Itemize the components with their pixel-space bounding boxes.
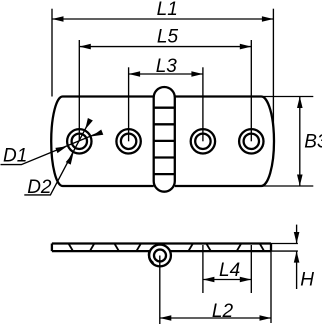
section mark 4 — [136, 244, 141, 252]
dimension L2 arrow left — [160, 315, 172, 321]
dimension L4 line — [203, 279, 251, 281]
hole 2 inner circle — [121, 134, 136, 149]
dimension L3 arrow left — [129, 71, 141, 77]
hole 3 outer circle — [191, 129, 215, 153]
dimension L4 extension line right — [250, 245, 252, 293]
dimension L1 arrow left — [52, 16, 64, 22]
side view leaf bottom edge left — [52, 250, 150, 252]
hinge leaf right plate outline (plan view) — [175, 97, 274, 187]
svg-text:D1: D1 — [3, 146, 27, 167]
section mark 3 — [114, 244, 119, 252]
knuckle division line 4 — [154, 156, 175, 158]
dimension L1 arrow right — [262, 16, 274, 22]
hole 2 outer circle — [116, 129, 140, 153]
hole 4 outer circle — [239, 129, 263, 153]
dimension L1 extension line left — [51, 9, 53, 97]
hole 3 inner circle — [195, 134, 210, 149]
section mark 7 — [237, 244, 242, 252]
svg-text:L5: L5 — [157, 27, 179, 48]
dimension L3 line — [129, 73, 203, 75]
svg-text:L1: L1 — [157, 0, 178, 20]
svg-text:L3: L3 — [156, 56, 178, 77]
barrel pin hole circle (side view) — [154, 250, 166, 262]
section mark 8 — [260, 244, 264, 252]
dimension L2 line — [160, 317, 271, 319]
dimension B3 extension line top — [262, 96, 314, 98]
dimension B3 line — [299, 97, 301, 187]
knuckle division line 3 — [154, 140, 175, 142]
dimension L2 extension line right — [270, 251, 272, 323]
side view leaf top edge — [52, 242, 271, 244]
leader D2 underline — [24, 121, 89, 195]
dimension L4 extension line left — [202, 245, 204, 293]
dimension H arrow top — [294, 232, 300, 244]
hinge knuckle capsule (plan view) — [154, 87, 175, 192]
dimension L1 line — [52, 18, 273, 20]
hinge leaf left plate outline (plan view) — [51, 97, 154, 187]
dimension B3 extension line bottom — [262, 185, 314, 187]
svg-text:L2: L2 — [212, 301, 234, 322]
dimension L1 extension line right — [272, 9, 274, 130]
dimension L5 arrow right — [240, 44, 252, 50]
dimension L4 arrow right — [240, 277, 252, 283]
svg-text:B3: B3 — [304, 132, 322, 153]
dimension H arrow bottom — [294, 251, 300, 263]
svg-text:D2: D2 — [27, 177, 52, 198]
section mark 2 — [90, 244, 94, 252]
dimension L5 extension line right — [250, 40, 252, 141]
svg-text:L4: L4 — [219, 260, 240, 281]
dimension L4 arrow left — [203, 277, 215, 283]
dimension B3 arrow top — [297, 97, 303, 109]
hole 1 inner circle — [72, 134, 87, 149]
dimension L5 extension line left — [78, 40, 80, 141]
leader D1 underline — [1, 132, 101, 164]
barrel curl arc (side view) — [149, 251, 153, 263]
dimension L3 extension line right — [202, 67, 204, 141]
dimension L5 line — [79, 46, 251, 48]
knuckle division line 1 — [154, 107, 175, 109]
hole 1 countersink outer circle — [67, 129, 91, 153]
dimension L3 arrow right — [191, 71, 203, 77]
dimension H extension line bottom — [271, 250, 298, 252]
side view leaf right end cap — [270, 244, 272, 252]
section mark 5 — [188, 244, 193, 252]
section mark 6 — [206, 244, 211, 252]
dimension H extension line top — [271, 243, 298, 245]
svg-text:H: H — [300, 269, 314, 290]
dimension H upper line — [296, 225, 298, 244]
leader D2 arrow lower-left on hole 1 — [66, 152, 76, 165]
side view leaf bottom edge right — [170, 250, 271, 252]
section mark 1 — [69, 244, 74, 252]
dimension B3 arrow bottom — [297, 175, 303, 187]
knuckle division line 5 — [154, 173, 175, 175]
hole 4 inner circle — [244, 134, 259, 149]
dimension L3 extension line left — [128, 67, 130, 141]
dimension L2 extension line left (barrel centre line) — [159, 256, 161, 325]
leader D1 arrow upper-right on hole 1 — [91, 130, 104, 139]
dimension H lower line — [296, 251, 298, 289]
dimension L2 arrow right — [260, 315, 272, 321]
dimension L5 arrow left — [79, 44, 91, 50]
leader D1 arrow lower-left on hole 1 — [55, 144, 68, 153]
barrel outer circle (side view) — [149, 245, 171, 267]
side view leaf left end cap — [51, 244, 53, 252]
leader D2 arrow upper-right on hole 1 — [83, 118, 93, 131]
knuckle division line 2 — [154, 123, 175, 125]
